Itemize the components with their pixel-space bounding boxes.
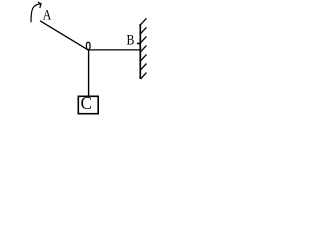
- moment arrow head: [38, 2, 41, 8]
- svg-text:C: C: [81, 92, 92, 113]
- wall hatch 1: [141, 18, 147, 24]
- wall line: [139, 24, 141, 79]
- wall hatch 3: [141, 36, 147, 42]
- svg-text:B: B: [126, 31, 134, 48]
- wall hatch 6: [141, 64, 147, 70]
- wall hatch 2: [141, 27, 147, 33]
- wall hatch 5: [141, 55, 147, 61]
- wall hatch 4: [141, 45, 147, 51]
- wall hatch 7: [141, 73, 147, 79]
- rod OA (diagonal member from pivot O up to A): [40, 21, 89, 50]
- svg-text:A: A: [43, 6, 52, 23]
- curved moment arrow near A (arc): [31, 4, 40, 22]
- cord OC (vertical member from pivot O down to load C): [88, 50, 90, 96]
- rod OB (horizontal member from pivot O to wall at B): [89, 49, 141, 51]
- pin tick at B on wall: [137, 43, 140, 45]
- box C (load block): [78, 96, 98, 113]
- node O marker (small 0 at the pivot): [86, 42, 90, 49]
